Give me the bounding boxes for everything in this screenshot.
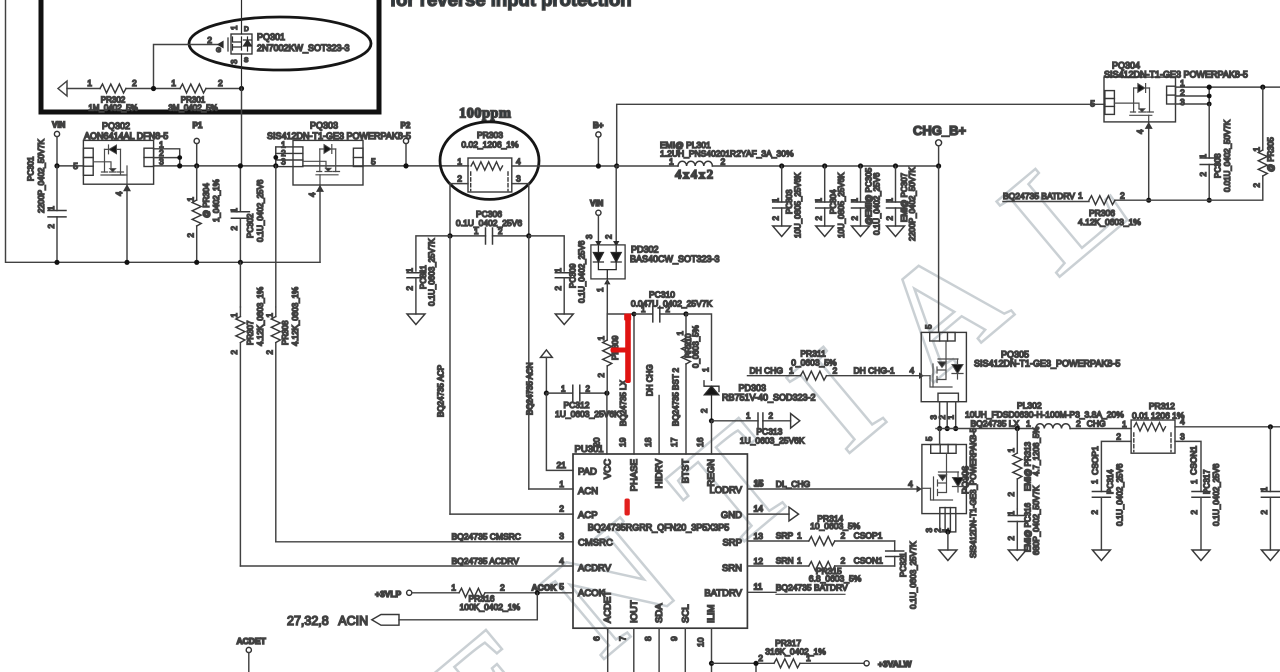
wire PC302 column down to PR307 [239,262,241,307]
svg-text:5: 5 [73,161,78,171]
svg-text:CSON1: CSON1 [1189,445,1199,475]
svg-text:BQ24735 BATDRV: BQ24735 BATDRV [776,582,848,592]
svg-text:1: 1 [597,335,606,340]
svg-text:IOUT: IOUT [629,600,640,623]
resistor PR309 [606,314,608,393]
svg-text:BAS40CW_SOT323-3: BAS40CW_SOT323-3 [630,254,720,264]
svg-text:2: 2 [500,583,505,593]
svg-text:1: 1 [669,157,674,167]
svg-text:16: 16 [695,437,705,447]
svg-text:SCL: SCL [680,605,691,623]
resistor PR311 [801,371,827,380]
svg-text:PD303: PD303 [739,383,767,393]
svg-text:4: 4 [308,192,317,197]
svg-text:PR309: PR309 [611,335,620,360]
capacitor PC313 [712,420,791,422]
svg-text:DL_CHG: DL_CHG [776,479,810,489]
svg-text:4: 4 [559,556,564,566]
svg-text:1: 1 [230,207,239,212]
capacitor PC305 [858,163,863,168]
off-page arrow left [58,81,67,96]
svg-text:2: 2 [559,504,564,514]
svg-text:2: 2 [1007,535,1016,540]
svg-text:5: 5 [1090,99,1095,109]
capacitor PC302 [239,166,241,262]
svg-text:2: 2 [605,234,614,239]
svg-text:1: 1 [1007,510,1016,515]
wire SDA pin8 [658,628,660,672]
svg-text:0.01U_0402_50V7K: 0.01U_0402_50V7K [1223,119,1232,192]
svg-text:2: 2 [1120,191,1125,201]
svg-text:BQ24735 BST 2: BQ24735 BST 2 [672,367,681,426]
svg-text:21: 21 [557,460,567,470]
svg-text:2200P_0402_50V7K: 2200P_0402_50V7K [37,138,46,213]
svg-text:D: D [244,26,249,33]
svg-text:SRP: SRP [776,531,794,541]
resistor PR314 [809,537,835,546]
svg-text:1: 1 [559,479,564,489]
svg-text:2: 2 [1190,509,1199,514]
svg-text:ILIM: ILIM [706,604,717,623]
svg-text:SDA: SDA [654,603,665,623]
junction PR313 [1015,426,1020,431]
resistor PR316 [459,588,485,597]
svg-text:DH CHG: DH CHG [646,364,655,396]
capacitor far right [1268,424,1273,429]
svg-text:ACP: ACP [578,510,598,521]
svg-text:100K_0402_1%: 100K_0402_1% [460,602,521,612]
svg-text:2: 2 [218,78,223,88]
svg-text:PC314: PC314 [1106,469,1115,494]
svg-text:316K_0402_1%: 316K_0402_1% [765,646,826,656]
wire ACP to pin2 [450,513,573,515]
svg-text:2: 2 [700,408,709,413]
svg-text:PC302: PC302 [246,213,255,238]
svg-text:3M_0402_5%: 3M_0402_5% [168,104,217,113]
svg-text:SIS412DN-T1-GE3_POWERPAK8-5: SIS412DN-T1-GE3_POWERPAK8-5 [969,427,978,558]
svg-text:1: 1 [806,653,811,663]
diode PD303 RB751V-40 [704,381,719,421]
svg-text:SIS412DN-T1-GE3_POWERPAK8-5: SIS412DN-T1-GE3_POWERPAK8-5 [974,359,1120,369]
power arrow up [541,350,553,358]
wire PAD [546,393,573,470]
svg-text:14: 14 [754,503,764,513]
capacitor PC309 [555,273,573,278]
svg-text:10U_0805_25V6K: 10U_0805_25V6K [794,172,803,238]
wire riser to PQ304 rail [617,104,1105,166]
svg-text:PR312: PR312 [1149,401,1175,411]
svg-text:4: 4 [910,366,915,376]
svg-text:1: 1 [850,197,859,202]
wire gate feedback to PQ301 [154,45,219,89]
wire CMSRC [276,541,573,543]
svg-text:0.01 1206 1%: 0.01 1206 1% [1132,411,1185,421]
svg-text:1: 1 [1122,419,1127,429]
svg-text:5: 5 [925,324,934,329]
svg-text:12: 12 [754,556,764,566]
PQ303 pins 1/2/3 junction column [275,147,277,166]
svg-text:17: 17 [669,437,679,447]
ground GND pin14 [747,513,789,515]
svg-text:G: G [216,47,221,54]
svg-text:20: 20 [591,437,601,447]
net BQ24735_BATDRV pin11 [747,591,776,593]
svg-text:2: 2 [187,232,196,237]
svg-text:ACN: ACN [578,486,598,497]
svg-text:ACDET: ACDET [603,591,614,623]
svg-text:1: 1 [701,367,710,372]
wire ACP column [449,236,451,514]
svg-text:+3VLP: +3VLP [375,589,402,599]
svg-text:1_0402_1%: 1_0402_1% [212,179,221,222]
wire ACOK down to ACIN [399,593,537,620]
wire SRN [747,565,894,567]
wire ACDET pin6 [607,628,609,672]
capacitor PC301 [56,166,58,262]
capacitor PC312 [546,392,607,394]
svg-text:1: 1 [1253,146,1262,151]
svg-text:2: 2 [758,653,763,663]
svg-text:11: 11 [754,582,763,592]
PQ303 pin4 wire to bottom rail [319,185,321,262]
svg-text:BQ24735 BATDRV: BQ24735 BATDRV [1003,191,1075,201]
svg-text:SIS412DN-T1-GE3 POWERPAK8-5: SIS412DN-T1-GE3 POWERPAK8-5 [267,131,411,141]
resistor PR302 [100,84,126,93]
svg-text:2: 2 [207,35,212,45]
svg-text:1: 1 [1091,479,1100,484]
capacitor PC308 [1208,104,1210,200]
svg-text:2: 2 [230,349,239,354]
svg-text:SRP: SRP [722,538,742,549]
svg-text:2: 2 [554,285,563,290]
svg-text:1: 1 [1260,486,1269,491]
capacitor PC316 [1008,516,1026,522]
svg-text:2: 2 [1253,182,1262,187]
svg-text:0.1U_0402_25V6: 0.1U_0402_25V6 [456,218,522,228]
resistor PR304 [196,166,198,262]
wire ACN column [528,236,530,489]
svg-text:ACDRV: ACDRV [578,563,612,574]
svg-text:2: 2 [666,305,671,314]
wire ACDRV [240,565,573,567]
svg-text:4: 4 [1180,417,1185,427]
transistor PQ301 2N7002KW [218,0,252,89]
wire PD302 pin2 from rail [615,166,617,241]
svg-text:2: 2 [1091,509,1100,514]
wire to PC309 [529,236,564,271]
resistor PR301 [180,84,206,93]
PQ305 pins 3,2,1 to LX rail [940,402,956,429]
svg-text:2: 2 [1076,419,1081,429]
svg-text:2: 2 [1199,171,1208,176]
ground [1008,550,1026,561]
svg-text:15: 15 [754,478,764,488]
svg-text:9: 9 [669,636,679,641]
svg-text:P2: P2 [401,121,411,130]
svg-text:PHASE: PHASE [629,459,640,491]
svg-text:1: 1 [474,227,479,236]
svg-text:2: 2 [772,215,781,220]
svg-text:1: 1 [457,157,462,167]
resistor PR306 [1089,196,1115,205]
svg-text:0.1U_0402_25V6: 0.1U_0402_25V6 [256,179,265,242]
ground PQ306 [947,532,949,550]
power arrow right REGN [791,414,800,429]
svg-text:5: 5 [371,157,376,167]
junction PR302/PR301 [151,86,156,91]
svg-text:BQ24735 ACDRV: BQ24735 ACDRV [452,556,520,566]
svg-text:PQ303: PQ303 [310,121,338,131]
PQ302 pin4 wire to rail [126,184,128,262]
svg-text:1: 1 [187,196,196,201]
svg-text:0.1U_0603_25V7K: 0.1U_0603_25V7K [428,238,437,306]
svg-text:VIN: VIN [52,121,66,130]
svg-text:1: 1 [230,312,239,317]
svg-text:1: 1 [47,205,56,210]
svg-text:4: 4 [516,157,521,167]
svg-text:4: 4 [115,191,124,196]
wire IOUT pin7 [633,628,635,672]
svg-text:BQ24735 ACN: BQ24735 ACN [526,362,535,415]
svg-text:BQ24735 LX: BQ24735 LX [619,380,628,426]
svg-text:CHG_B+: CHG_B+ [913,123,967,138]
svg-text:PC309: PC309 [569,263,578,288]
capacitor PC314 [1092,492,1110,498]
svg-text:BQ24735RGRR_QFN20_3P5X3P5: BQ24735RGRR_QFN20_3P5X3P5 [588,523,730,533]
svg-text:4.12K_0603_1%: 4.12K_0603_1% [256,287,265,346]
svg-text:1: 1 [230,25,239,30]
svg-text:PC301: PC301 [27,156,36,181]
wire CSON1 [1175,441,1201,491]
svg-text:DH CHG-1: DH CHG-1 [854,366,895,376]
wire PR317 branch [712,663,865,672]
wire VCC [606,393,608,454]
HIDRV stub DH CHG [658,396,660,455]
svg-text:0.02_1206_1%: 0.02_1206_1% [461,140,519,150]
svg-text:1: 1 [885,197,894,202]
wire ILIM pin10 [711,628,713,672]
ellipse around PQ301 [189,17,371,70]
wire CSOP1 [1101,441,1131,491]
svg-text:3: 3 [1180,432,1185,442]
svg-text:1: 1 [265,312,274,317]
svg-text:18: 18 [643,437,653,447]
svg-text:4x4x2: 4x4x2 [675,167,715,182]
PQ304 right pins 1,2,3 [1176,87,1280,104]
svg-text:2: 2 [230,225,239,230]
svg-text:2: 2 [721,157,726,167]
svg-text:4: 4 [1136,129,1145,134]
svg-text:1U_0603_25V6K: 1U_0603_25V6K [555,409,620,419]
wire to PC311 [416,236,450,271]
wire PQ301 source down to VIN rail [241,89,243,166]
svg-text:8: 8 [643,636,653,641]
svg-text:2: 2 [841,556,846,566]
wire REGN [711,421,713,454]
svg-text:2: 2 [597,372,606,377]
svg-text:3: 3 [281,156,286,166]
svg-text:1: 1 [171,78,176,88]
svg-text:3: 3 [516,174,521,184]
svg-text:2: 2 [850,215,859,220]
svg-text:1: 1 [406,267,415,272]
svg-text:1: 1 [772,197,781,202]
svg-text:for reverse input protection: for reverse input protection [390,0,632,10]
svg-text:27,32,8: 27,32,8 [287,614,329,628]
svg-text:PC308: PC308 [1214,153,1223,178]
svg-text:GND: GND [721,510,742,521]
svg-text:2: 2 [1116,432,1121,442]
ground [1092,550,1110,561]
resistor PR307 [239,307,241,566]
svg-text:10_0603_5%: 10_0603_5% [810,521,861,531]
svg-text:B+: B+ [593,121,604,130]
wire BTST riser / REGN riser [686,314,712,380]
svg-text:10: 10 [695,637,705,647]
resistor PR313 [1016,429,1018,510]
svg-text:5: 5 [559,582,564,592]
wire PR302 row [67,88,242,90]
svg-text:680P_0402_50V7K: 680P_0402_50V7K [1032,485,1041,555]
svg-text:1: 1 [1199,153,1208,158]
svg-text:2: 2 [457,174,462,184]
svg-text:REGN: REGN [706,459,717,487]
svg-text:1: 1 [641,305,646,314]
svg-text:1.2UH_PNS40201R2YAF_3A_30%: 1.2UH_PNS40201R2YAF_3A_30% [660,149,794,159]
svg-text:DH CHG: DH CHG [750,366,784,376]
svg-text:1: 1 [1078,191,1083,201]
svg-text:AON6414AL DFN8-5: AON6414AL DFN8-5 [84,131,168,141]
capacitor PC307 [893,163,898,168]
svg-text:1U_0603_25V6K: 1U_0603_25V6K [740,436,805,446]
wire CHG_B+ down to PQ305 [938,166,940,332]
svg-text:@ PR304: @ PR304 [202,183,211,218]
svg-text:ACOK: ACOK [578,588,606,599]
rail through PR303 to B+ [512,165,617,167]
svg-text:HIDRV: HIDRV [654,458,665,488]
ground [1192,550,1210,561]
svg-text:7: 7 [618,636,628,641]
svg-text:1: 1 [797,556,802,566]
svg-text:1: 1 [746,412,751,421]
svg-text:1: 1 [1007,447,1016,452]
capacitor PC317 [1192,492,1210,498]
svg-text:+3VALW: +3VALW [878,659,913,669]
node +3VALW [864,661,869,666]
svg-text:1: 1 [1026,419,1031,429]
svg-text:4: 4 [908,479,913,489]
capacitor PC304 [822,163,827,168]
svg-text:19: 19 [618,437,628,447]
svg-text:5: 5 [925,436,934,441]
svg-text:2: 2 [132,78,137,88]
svg-text:BQ24735 LX: BQ24735 LX [971,419,1020,429]
wire PQ303 junction down to PR308 [275,166,277,307]
svg-text:P1: P1 [193,121,203,130]
svg-text:SRN: SRN [722,563,742,574]
svg-text:2: 2 [406,285,415,290]
svg-text:4.7_1206_5%: 4.7_1206_5% [1032,427,1041,476]
svg-text:2: 2 [1007,491,1016,496]
svg-text:BQ24735 ACP: BQ24735 ACP [437,365,446,417]
svg-text:ACDET: ACDET [237,636,267,646]
svg-text:BATDRV: BATDRV [704,588,742,599]
PQ304 pin4 down to BATDRV [1148,122,1150,200]
resistor PR308 [275,307,277,542]
wire PHASE / LX [607,314,634,454]
ground [555,314,573,325]
svg-text:4.12K_0603_1%: 4.12K_0603_1% [1078,217,1141,227]
capacitor PC321 [894,541,896,566]
svg-text:0.1U_0402_25V6: 0.1U_0402_25V6 [1212,463,1221,526]
svg-text:1: 1 [554,267,563,272]
svg-text:1M_0402_5%: 1M_0402_5% [88,104,137,113]
svg-text:0.1U_0603_25V7K: 0.1U_0603_25V7K [909,541,918,609]
svg-text:ACIN: ACIN [338,614,368,628]
ellipse around PR303 [440,122,539,200]
svg-text:CSOP1: CSOP1 [1090,446,1100,475]
svg-text:10U_0805_25V6K: 10U_0805_25V6K [837,172,846,238]
svg-text:PR308: PR308 [281,320,290,345]
svg-text:2: 2 [769,412,774,421]
svg-text:PR307: PR307 [246,320,255,345]
capacitor PC311 [407,273,425,278]
svg-text:0.1U_0402_25V6: 0.1U_0402_25V6 [578,240,587,303]
PQ306 pin5 wire [939,429,941,445]
svg-text:0.1U_0402_25V6: 0.1U_0402_25V6 [1116,463,1125,526]
svg-text:CSON1: CSON1 [854,556,884,566]
svg-text:1: 1 [797,531,802,541]
svg-text:PR303: PR303 [477,130,503,140]
svg-text:PC317: PC317 [1203,469,1212,494]
svg-text:4.12K_0603_1%: 4.12K_0603_1% [291,287,300,346]
svg-text:VIN: VIN [590,199,604,208]
net BQ24735_LX rail [936,428,1131,430]
red annotation mark [611,314,632,516]
capacitor PC303 [779,163,784,168]
resistor PR305 [1209,87,1263,200]
svg-text:1: 1 [947,414,956,419]
svg-text:3: 3 [1180,97,1185,107]
resistor PR317 [774,659,800,668]
resistor PR310 [685,314,687,454]
svg-text:0_0603_5%: 0_0603_5% [791,358,837,368]
svg-text:PQ302: PQ302 [102,121,130,131]
svg-text:13: 13 [754,531,764,541]
svg-text:2: 2 [1260,509,1269,514]
wire SCL pin9 [684,628,686,672]
svg-text:1: 1 [451,583,456,593]
svg-text:3: 3 [159,157,164,167]
svg-text:2: 2 [841,531,846,541]
svg-text:6: 6 [591,636,601,641]
svg-text:CSOP1: CSOP1 [854,531,883,541]
svg-text:3: 3 [585,234,594,239]
svg-text:3: 3 [559,531,564,541]
PQ302 right pins 1,2,3 [154,149,180,166]
svg-text:2: 2 [47,223,56,228]
svg-text:PC321: PC321 [899,552,908,577]
svg-text:2N7002KW_SOT323-3: 2N7002KW_SOT323-3 [257,43,350,53]
wire SRP [747,540,894,542]
svg-text:2: 2 [885,215,894,220]
svg-text:CMSRC: CMSRC [578,538,613,549]
svg-text:VCC: VCC [603,459,614,479]
svg-text:1: 1 [87,78,92,88]
svg-text:PAD: PAD [578,466,597,477]
svg-text:BQ24735 CMSRC: BQ24735 CMSRC [452,532,521,542]
svg-text:PQ301: PQ301 [257,32,285,42]
